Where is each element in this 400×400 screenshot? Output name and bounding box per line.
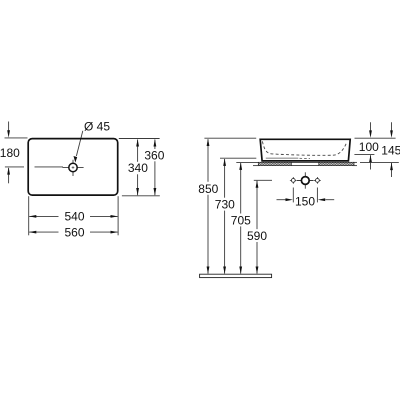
svg-text:560: 560 [64,225,84,239]
svg-text:180: 180 [0,146,20,160]
svg-text:730: 730 [215,198,235,212]
svg-text:590: 590 [247,229,267,243]
svg-text:705: 705 [231,213,251,227]
svg-text:540: 540 [64,210,84,224]
svg-text:145: 145 [381,143,400,157]
svg-text:100: 100 [359,140,379,154]
svg-text:150: 150 [295,195,315,209]
svg-text:Ø 45: Ø 45 [84,120,110,134]
svg-text:850: 850 [198,182,218,196]
svg-text:340: 340 [128,161,148,175]
